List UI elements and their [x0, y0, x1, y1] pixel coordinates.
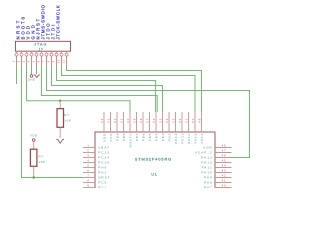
- junction on NRST net at R2: [33, 176, 35, 178]
- svg-text:PA7: PA7: [204, 186, 213, 188]
- IC U1 top pin 63 VSS: [107, 112, 113, 141]
- svg-text:VBAT: VBAT: [98, 146, 110, 150]
- svg-text:62: 62: [113, 118, 117, 123]
- IC U1 left pin 8 PC0: [83, 179, 107, 185]
- svg-text:49: 49: [198, 118, 202, 123]
- svg-text:PB5: PB5: [148, 133, 152, 141]
- IC U1 top pin 52 PC11: [178, 112, 184, 144]
- wire pin7 to PA13 (down, right, down, left): [47, 67, 250, 158]
- svg-text:1: 1: [13, 60, 16, 62]
- IC U1 right pin 40 PA7: [204, 184, 231, 190]
- IC U1 top pin 62 PB9: [113, 112, 119, 141]
- svg-text:PA9: PA9: [204, 176, 213, 180]
- connector J? value JTAG: [34, 43, 47, 47]
- svg-text:PB6: PB6: [141, 133, 145, 141]
- IC U1 top pin 55 PB3: [159, 112, 165, 141]
- connector J? pin 4: [28, 51, 33, 66]
- svg-text:4: 4: [87, 159, 89, 163]
- IC U1 left pin 6 PH1: [83, 169, 107, 175]
- svg-text:59: 59: [133, 118, 137, 123]
- svg-text:JTCK-SWCLK: JTCK-SWCLK: [56, 5, 61, 40]
- svg-text:PC13: PC13: [98, 151, 110, 155]
- IC U1 right pin 45 PA12: [201, 159, 231, 165]
- svg-text:PB9: PB9: [115, 133, 119, 141]
- wire pin8 to PB3 (down, right, down): [52, 67, 163, 113]
- wire pin6 to PB4 (down, right, down): [42, 67, 158, 113]
- IC U1 right pin 46 PA13: [201, 154, 231, 160]
- svg-text:R?: R?: [39, 155, 44, 159]
- svg-text:11: 11: [63, 59, 66, 63]
- IC U1 top pin 60 BOOT0: [126, 112, 132, 147]
- IC U1 left pin 2 PC13: [83, 149, 110, 155]
- svg-text:46: 46: [222, 154, 227, 158]
- resistor R1 top stub: [59, 101, 61, 109]
- IC U1 right pin 42 PA9: [204, 174, 231, 180]
- svg-text:5: 5: [87, 164, 89, 168]
- IC U1 left pin 9 PC1: [83, 184, 107, 190]
- svg-text:STM32F405RG: STM32F405RG: [135, 157, 172, 162]
- svg-text:44: 44: [222, 164, 227, 168]
- net label JTDI: [51, 23, 56, 40]
- svg-text:VCAP_2: VCAP_2: [195, 151, 213, 155]
- IC U1 left pin 5 PH0: [83, 164, 107, 170]
- net label JTDO: [46, 22, 51, 40]
- connector J? pin 11: [63, 51, 68, 66]
- junction on BOOT0 net at R1: [59, 100, 61, 102]
- resistor R1 body: [57, 109, 64, 128]
- svg-text:5: 5: [33, 60, 36, 62]
- svg-text:PB8: PB8: [122, 133, 126, 141]
- IC U1 value STM32F405RG: [135, 157, 172, 162]
- svg-text:41: 41: [222, 179, 227, 183]
- svg-text:PA12: PA12: [201, 161, 212, 165]
- net label NRST: [16, 18, 21, 39]
- svg-text:8: 8: [48, 60, 51, 62]
- svg-text:64: 64: [100, 118, 104, 123]
- IC U1 left pin 4 PC15: [83, 159, 110, 165]
- svg-text:55: 55: [159, 118, 163, 123]
- IC U1 top pin 54 PD2: [165, 112, 171, 141]
- connector J? pin 3: [23, 51, 28, 66]
- svg-text:53: 53: [172, 118, 176, 123]
- connector J? reference J?: [39, 47, 44, 51]
- svg-text:50: 50: [191, 118, 195, 123]
- IC U1 top pin 64 VDD: [100, 112, 106, 142]
- svg-text:60: 60: [126, 118, 130, 123]
- svg-text:6: 6: [87, 169, 89, 173]
- power port (ring) on pin 4: [28, 75, 36, 82]
- wire pin11 to PA14 (down, right, down): [67, 67, 202, 113]
- IC U1 top pin 58 PB6: [139, 112, 145, 141]
- svg-text:4: 4: [28, 60, 31, 62]
- svg-text:PD2: PD2: [167, 133, 171, 141]
- svg-text:57: 57: [146, 118, 150, 123]
- net label JTMS-SWDIO: [41, 4, 46, 39]
- svg-text:PA11: PA11: [202, 166, 213, 170]
- svg-text:1: 1: [87, 144, 89, 148]
- svg-text:PC1: PC1: [98, 186, 107, 188]
- net label NJRST: [36, 17, 41, 39]
- svg-text:PC11: PC11: [180, 133, 184, 144]
- svg-text:8: 8: [87, 179, 89, 183]
- svg-text:VDD: VDD: [203, 146, 213, 150]
- svg-text:10K: 10K: [64, 118, 71, 122]
- svg-text:6: 6: [38, 60, 41, 62]
- IC U1 top pin 50 PA15: [191, 112, 197, 143]
- svg-text:PC0: PC0: [98, 181, 107, 185]
- svg-text:9: 9: [87, 184, 89, 188]
- IC U1 top pin 49 PA14: [198, 112, 204, 143]
- wire pin10 to PA15 (down, right, down): [62, 67, 196, 113]
- svg-text:40: 40: [222, 184, 227, 188]
- wire pin2 to MCU NRST (down, right): [22, 67, 84, 178]
- svg-text:VSS: VSS: [109, 133, 113, 142]
- svg-text:PH0: PH0: [98, 166, 107, 170]
- IC U1 right pin 43 PA10: [201, 169, 231, 175]
- svg-text:PB4: PB4: [154, 133, 158, 141]
- ground symbol GND below R1: [57, 139, 64, 143]
- svg-text:PA15: PA15: [193, 133, 197, 144]
- svg-text:3: 3: [23, 60, 26, 62]
- svg-text:61: 61: [120, 118, 124, 123]
- resistor R2 bottom stub: [33, 166, 35, 177]
- IC U1 left pin 1 VBAT: [83, 144, 110, 150]
- resistor R2 value 10K: [39, 160, 46, 164]
- IC U1 right pin 47 VCAP_2: [195, 149, 232, 155]
- svg-text:7: 7: [87, 174, 89, 178]
- svg-text:U1: U1: [151, 172, 157, 176]
- svg-text:VDD: VDD: [102, 133, 106, 142]
- svg-text:51: 51: [185, 118, 189, 123]
- connector J? pin 1: [13, 51, 18, 66]
- wire pin4 down to GND port: [31, 67, 33, 75]
- connector J? pin 9: [53, 51, 58, 66]
- svg-text:7: 7: [43, 60, 46, 62]
- connector J? pin 7: [43, 51, 48, 66]
- svg-text:48: 48: [222, 144, 227, 148]
- svg-text:PA10: PA10: [201, 171, 212, 175]
- svg-text:GND: GND: [28, 78, 36, 82]
- svg-text:PA8: PA8: [204, 181, 213, 185]
- svg-text:PC12: PC12: [174, 133, 178, 144]
- svg-text:54: 54: [165, 118, 169, 123]
- IC U1 top pin 51 PC10: [185, 112, 191, 144]
- svg-text:10K: 10K: [39, 160, 46, 164]
- svg-text:56: 56: [152, 118, 156, 123]
- ground symbol GND on pin 5: [34, 75, 40, 78]
- svg-text:2: 2: [18, 60, 21, 62]
- connector J? pin 5: [33, 51, 38, 66]
- connector J? JTAG header box: [16, 41, 71, 51]
- IC U1 right pin 48 VDD: [203, 144, 231, 150]
- IC U1 left pin 3 PC14: [83, 154, 110, 160]
- svg-text:2: 2: [87, 149, 89, 153]
- net label JTCK-SWCLK: [56, 5, 61, 40]
- svg-text:3: 3: [87, 154, 89, 158]
- IC U1 top pin 57 PB5: [146, 112, 152, 141]
- connector J? pin 6: [38, 51, 43, 66]
- connector J? pin 2: [18, 51, 23, 66]
- resistor R2 top stub: [33, 141, 35, 149]
- svg-text:52: 52: [178, 118, 182, 123]
- svg-text:43: 43: [222, 169, 227, 173]
- svg-text:JTAG: JTAG: [34, 43, 47, 47]
- wire pin1 NRST stub down: [16, 67, 18, 85]
- svg-text:PC10: PC10: [187, 133, 191, 144]
- IC U1 right pin 44 PA11: [202, 164, 232, 170]
- svg-text:NRST: NRST: [98, 176, 110, 180]
- svg-text:BOOT0: BOOT0: [128, 133, 132, 148]
- svg-text:PC14: PC14: [98, 156, 110, 160]
- svg-text:10: 10: [58, 59, 61, 63]
- net label BOOT0: [21, 15, 26, 40]
- resistor R2 reference R?: [39, 155, 44, 159]
- IC U1 left pin 7 NRST: [83, 174, 111, 180]
- svg-text:PH1: PH1: [98, 171, 107, 175]
- svg-text:R?: R?: [64, 113, 69, 117]
- svg-text:58: 58: [139, 118, 143, 123]
- svg-text:9: 9: [53, 60, 56, 62]
- svg-text:PB3: PB3: [161, 133, 165, 141]
- resistor R1 reference R?: [64, 113, 69, 117]
- IC U1 STM32F405RG body: [95, 132, 215, 190]
- svg-text:42: 42: [222, 174, 227, 178]
- IC U1 top pin 61 PB8: [120, 112, 126, 141]
- svg-text:PC15: PC15: [98, 161, 110, 165]
- svg-text:63: 63: [107, 118, 111, 123]
- svg-text:PB7: PB7: [135, 133, 139, 141]
- wire pin5 down to GND symbol: [36, 67, 38, 75]
- wire pin9 (down, right, down): [57, 67, 156, 113]
- resistor R2 body: [30, 149, 37, 166]
- svg-text:PA13: PA13: [201, 156, 212, 160]
- svg-text:VDD: VDD: [30, 134, 38, 138]
- IC U1 top pin 53 PC12: [172, 112, 178, 144]
- IC U1 top pin 56 PB4: [152, 112, 158, 141]
- connector J? pin 10: [58, 51, 63, 66]
- IC U1 right pin 41 PA8: [204, 179, 231, 185]
- resistor R1 value 10K: [64, 118, 71, 122]
- IC U1 top pin 59 PB7: [133, 112, 139, 141]
- svg-text:47: 47: [222, 149, 227, 153]
- net label VDD: [26, 24, 31, 40]
- IC U1 reference U1: [151, 172, 157, 176]
- connector J? pin 8: [48, 51, 53, 66]
- power port VDD above R2: [30, 134, 38, 142]
- resistor R1 bottom stub: [59, 127, 61, 138]
- svg-text:J?: J?: [39, 47, 44, 51]
- svg-text:PA14: PA14: [200, 133, 204, 144]
- svg-text:45: 45: [222, 159, 227, 163]
- net label GND: [31, 23, 36, 40]
- wire pin3 BOOT0 net (down, right, down to BOOT0 pin): [27, 67, 131, 113]
